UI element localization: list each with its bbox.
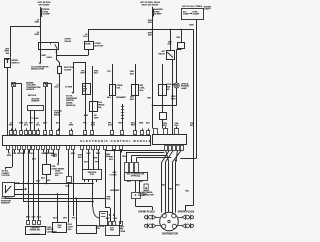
svg-text:GRN: GRN: [94, 117, 99, 119]
svg-text:TAN: TAN: [118, 122, 122, 125]
svg-text:CONN: CONN: [120, 231, 126, 233]
svg-text:ORN: ORN: [189, 25, 194, 27]
svg-text:CANISTER: CANISTER: [30, 233, 40, 236]
svg-text:BUTTON: BUTTON: [95, 45, 104, 47]
svg-text:BLK: BLK: [91, 125, 96, 127]
svg-text:WHT: WHT: [80, 73, 85, 75]
svg-text:TAN: TAN: [176, 36, 180, 39]
svg-text:BRN: BRN: [35, 34, 40, 36]
svg-text:BLK: BLK: [55, 87, 60, 89]
svg-text:CHOKE: CHOKE: [64, 69, 72, 71]
svg-text:FILTER: FILTER: [138, 195, 145, 197]
svg-text:BLK: BLK: [41, 178, 46, 180]
svg-text:BLU: BLU: [24, 125, 29, 127]
svg-text:LT GRN: LT GRN: [110, 174, 118, 176]
svg-text:CLUTCH: CLUTCH: [2, 175, 11, 177]
svg-text:BLK: BLK: [107, 97, 112, 99]
svg-text:TEST OR START: TEST OR START: [141, 3, 159, 6]
svg-text:BLU: BLU: [83, 36, 88, 38]
svg-text:BLK: BLK: [78, 157, 83, 159]
svg-text:BLK: BLK: [107, 199, 112, 201]
svg-text:LT BLU: LT BLU: [28, 153, 35, 155]
svg-text:BLK: BLK: [148, 35, 153, 37]
svg-text:GRN: GRN: [7, 155, 12, 157]
svg-text:HOT AT ALL TIMES: HOT AT ALL TIMES: [182, 5, 202, 8]
svg-text:GROMMET: GROMMET: [116, 97, 127, 99]
svg-text:BLK: BLK: [109, 159, 114, 161]
svg-text:COMP: COMP: [183, 14, 189, 16]
svg-text:TAN: TAN: [122, 155, 126, 158]
svg-text:TAN: TAN: [147, 97, 151, 100]
svg-text:CANISTER: CANISTER: [47, 230, 58, 233]
svg-text:BLK: BLK: [190, 125, 195, 127]
svg-text:DISTRIBUTOR: DISTRIBUTOR: [162, 233, 179, 236]
svg-text:30 AMP: 30 AMP: [193, 13, 200, 16]
svg-text:BLK: BLK: [94, 73, 99, 75]
svg-text:SW: SW: [6, 53, 9, 55]
svg-text:RELAY: RELAY: [65, 40, 72, 43]
svg-text:BLK: BLK: [148, 22, 153, 24]
svg-text:LAMP: LAMP: [181, 87, 188, 90]
svg-text:BLK: BLK: [84, 162, 89, 164]
svg-text:(TYPICAL): (TYPICAL): [131, 175, 141, 178]
svg-text:GRN: GRN: [9, 125, 14, 127]
svg-text:OR START: OR START: [38, 3, 50, 6]
svg-text:ELECTRONIC CONTROL MODULE: ELECTRONIC CONTROL MODULE: [80, 139, 151, 143]
svg-text:SENSOR: SENSOR: [1, 203, 10, 205]
svg-text:BLK: BLK: [108, 125, 113, 127]
svg-text:SENSOR: SENSOR: [31, 101, 40, 103]
svg-text:BLK: BLK: [43, 123, 48, 125]
svg-text:RELAY: RELAY: [54, 114, 61, 117]
svg-text:BLU: BLU: [36, 125, 41, 127]
svg-text:BLK: BLK: [127, 181, 132, 183]
svg-text:REGULATOR: REGULATOR: [31, 68, 44, 71]
svg-text:WHT: WHT: [171, 98, 176, 100]
svg-text:BRN: BRN: [84, 115, 89, 117]
svg-text:G BLU: G BLU: [46, 57, 52, 59]
svg-text:BLK: BLK: [130, 74, 135, 76]
svg-text:SW: SW: [166, 89, 169, 91]
svg-text:BLK: BLK: [168, 44, 173, 46]
svg-text:GRN: GRN: [69, 125, 74, 127]
svg-text:ORN: ORN: [139, 123, 144, 125]
svg-text:10 AMP: 10 AMP: [154, 13, 162, 16]
svg-text:BLK: BLK: [146, 123, 151, 125]
svg-text:LT GRN: LT GRN: [32, 118, 40, 120]
svg-text:WHT BLK: WHT BLK: [28, 95, 37, 97]
svg-text:ORN: ORN: [19, 123, 24, 125]
svg-text:LT GRN: LT GRN: [65, 87, 73, 89]
svg-text:SWITCH: SWITCH: [12, 63, 20, 65]
svg-text:SW: SW: [83, 91, 86, 93]
svg-text:ORN: ORN: [21, 153, 26, 155]
svg-text:SPARK PLUGS: SPARK PLUGS: [178, 210, 195, 213]
svg-text:COMPT: COMPT: [204, 9, 212, 11]
svg-text:BLK: BLK: [37, 217, 42, 219]
svg-text:BLK: BLK: [53, 218, 58, 220]
svg-text:PURGE SOL: PURGE SOL: [30, 230, 41, 232]
svg-text:HORN: HORN: [85, 44, 91, 46]
svg-text:GROMMET: GROMMET: [110, 190, 120, 192]
svg-text:BLK: BLK: [32, 159, 37, 161]
svg-text:SENSOR: SENSOR: [26, 89, 35, 91]
svg-text:RELAY: RELAY: [158, 52, 165, 55]
svg-text:BLK: BLK: [26, 217, 31, 219]
svg-text:25 AMP: 25 AMP: [43, 13, 51, 16]
svg-text:MODELS): MODELS): [66, 105, 76, 107]
svg-text:ORN: ORN: [50, 153, 55, 155]
svg-text:SPARK PLUGS: SPARK PLUGS: [138, 211, 155, 214]
svg-text:BLK: BLK: [66, 185, 71, 187]
svg-text:BLK: BLK: [56, 123, 61, 125]
svg-text:BRN: BRN: [35, 22, 40, 24]
